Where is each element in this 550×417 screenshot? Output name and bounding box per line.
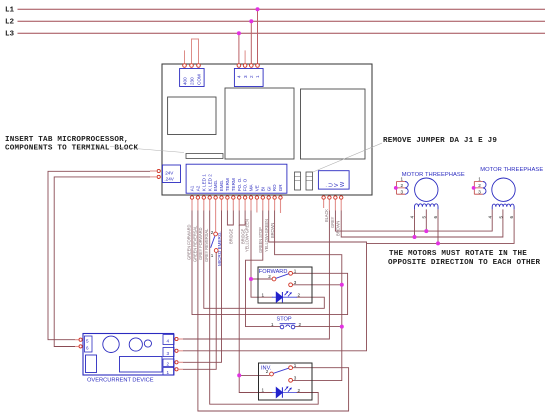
wire micro emerg to overcurrent 1 (183, 252, 216, 369)
stop contact a (280, 325, 284, 329)
junction FORWARD feed (249, 277, 253, 281)
terminal 230 (190, 64, 194, 68)
svg-text:1: 1 (271, 322, 274, 327)
oc bottom right rect (120, 357, 163, 373)
junction motor1 coil4 (413, 235, 417, 239)
svg-text:MOTOR THREEPHASE: MOTOR THREEPHASE (402, 172, 465, 178)
svg-text:COMPONENTS TO TERMINAL BLOCK: COMPONENTS TO TERMINAL BLOCK (5, 145, 138, 153)
forward switch contact 1 (289, 271, 293, 275)
svg-text:6: 6 (509, 216, 514, 219)
svg-text:STOP: STOP (277, 317, 292, 323)
svg-text:3: 3 (167, 351, 170, 356)
inv switch lever (273, 368, 288, 373)
UVW stubs (324, 200, 342, 211)
wire 24V to overcurrent 5 (48, 171, 150, 339)
jumper J9 (306, 172, 313, 190)
forward switch lever (276, 274, 289, 279)
wire terminal4 to L3 (238, 33, 240, 63)
wire MA feed to FORWARD contact 2 and led (251, 211, 273, 298)
svg-text:1: 1 (294, 363, 297, 368)
terminal -24V (157, 175, 160, 178)
wire FO.O bridge (239, 211, 245, 226)
svg-text:GREEN FORWARD: GREEN FORWARD (186, 225, 191, 260)
wire terminal2 to L2 (250, 21, 252, 63)
junction motor1 coil5 (424, 229, 428, 233)
junction stop2 (340, 325, 344, 329)
svg-text:1: 1 (262, 388, 265, 393)
svg-text:2: 2 (298, 388, 301, 393)
svg-text:A2: A2 (196, 185, 201, 191)
junction L1 (256, 7, 260, 11)
wire K LED 2 grey reversal to INV led (210, 211, 319, 405)
connector 400/230/COM box (180, 69, 205, 87)
micro emerg switch lever (211, 236, 215, 248)
terminal strip stubs (192, 200, 281, 232)
wire -24V to overcurrent 6 (54, 177, 150, 347)
svg-text:BLACK: BLACK (324, 209, 329, 222)
oc bottom left rect (86, 355, 97, 373)
wire L3 line (18, 32, 546, 34)
svg-text:2: 2 (268, 274, 271, 279)
oc terminal 5 (79, 338, 82, 341)
svg-text:YELLOW+GREEN: YELLOW+GREEN (264, 219, 269, 252)
board inner block right (301, 89, 366, 159)
jumper J1 (295, 172, 301, 190)
wire terminal1 to L1 (257, 9, 259, 63)
svg-text:24V: 24V (165, 170, 174, 175)
motor1 coils (414, 204, 438, 210)
svg-text:RO: RO (272, 184, 277, 191)
inv switch contact 3 (289, 378, 293, 382)
svg-text:TERM: TERM (225, 178, 230, 191)
wire V grey from UVW to motor coils (335, 209, 492, 231)
oc terminal 2 right (175, 361, 178, 364)
svg-text:MA: MA (249, 183, 254, 191)
oc right terminal box 2 (163, 359, 174, 367)
svg-text:OPPOSITE DIRECTION TO EACH OTH: OPPOSITE DIRECTION TO EACH OTHER (388, 259, 540, 267)
svg-text:YELLOW+GREEN: YELLOW+GREEN (245, 219, 250, 252)
svg-text:1: 1 (262, 292, 265, 297)
forward switch contact 2 (272, 277, 276, 281)
terminal 2 (250, 64, 254, 68)
svg-text:GI: GI (266, 186, 271, 191)
svg-text:2: 2 (249, 75, 254, 78)
svg-text:3: 3 (401, 189, 404, 194)
svg-text:2: 2 (299, 322, 302, 327)
motor2 connector (472, 177, 486, 195)
svg-text:3: 3 (243, 75, 248, 78)
svg-text:1: 1 (294, 268, 297, 273)
wire L1 line (18, 8, 546, 10)
svg-text:6: 6 (86, 346, 89, 351)
svg-text:6: 6 (433, 216, 438, 219)
UVW connector box (318, 171, 349, 189)
wire FORWARD contact2 branch (251, 278, 272, 280)
terminal strip labels (190, 174, 284, 192)
svg-text:GREY REVERSAL: GREY REVERSAL (204, 228, 209, 262)
terminal strip box (186, 164, 287, 193)
terminal 3 (243, 64, 247, 68)
oc terminal 1 right (175, 368, 178, 371)
svg-text:THE MOTORS MUST ROTATE IN THE: THE MOTORS MUST ROTATE IN THE (389, 250, 527, 258)
svg-text:BROWN: BROWN (336, 221, 341, 236)
terminal strip circles (190, 196, 282, 199)
svg-text:4: 4 (487, 216, 492, 219)
oc right terminal box 3 (163, 348, 174, 357)
stop bar (280, 324, 296, 327)
svg-text:2: 2 (298, 293, 301, 298)
svg-text:1: 1 (255, 75, 260, 78)
inv switch contact 2 (270, 372, 274, 376)
oc right terminal box 1 (163, 368, 174, 376)
svg-text:2: 2 (167, 361, 170, 366)
STOP pushbutton (271, 317, 302, 329)
wire A1 green forward to FORWARD contact 1 (192, 211, 348, 315)
terminal COM (197, 64, 201, 68)
wire RO to forward3 stop2 inv3 chain (275, 211, 342, 381)
svg-text:EMG.: EMG. (213, 180, 218, 192)
INV box (259, 363, 313, 400)
micro emerg switch terminal b (214, 249, 218, 253)
junction L3 (237, 31, 241, 35)
wire terminal3 stub (244, 50, 246, 63)
pointer line insert tab (110, 147, 184, 153)
inv led (262, 387, 301, 398)
UVW terminal circles (322, 196, 343, 199)
svg-text:GR: GR (278, 184, 283, 192)
svg-text:L2: L2 (5, 19, 15, 27)
terminal 1 (256, 64, 260, 68)
svg-text:TERM: TERM (231, 178, 236, 191)
svg-text:4: 4 (167, 338, 170, 343)
junction INV feed (237, 373, 241, 377)
svg-text:FO. O.: FO. O. (237, 178, 242, 192)
terminal 400 (183, 64, 187, 68)
board inner block left (168, 97, 216, 135)
oc left terminal box (85, 336, 93, 352)
svg-text:4: 4 (410, 216, 415, 219)
svg-text:2: 2 (266, 369, 269, 374)
wire motors phase3 run (367, 209, 515, 243)
board inner block center (225, 88, 294, 159)
svg-text:FORWARD: FORWARD (259, 269, 288, 275)
wire EMG2 to overcurrent 2 (183, 211, 222, 363)
svg-text:GREY FORWARD: GREY FORWARD (198, 227, 203, 260)
svg-text:FO. O: FO. O (243, 178, 248, 191)
wire FORWARD contact3 link (293, 284, 342, 286)
svg-text:L3: L3 (5, 31, 15, 39)
svg-text:BI: BI (260, 187, 265, 191)
svg-text:1: 1 (167, 370, 170, 375)
microprocessor board outline (162, 64, 372, 195)
connector 4321 box (234, 69, 263, 87)
motor2 circle (492, 178, 515, 201)
wire GI to motors phase and overcurrent 3 (183, 211, 367, 351)
terminal 24V (157, 169, 160, 172)
forward switch contact 3 (289, 283, 293, 287)
svg-text:VE: VE (255, 185, 260, 191)
svg-text:5: 5 (86, 339, 89, 344)
svg-text:A1: A1 (190, 185, 195, 191)
overcurrent device (83, 334, 174, 384)
svg-text:COM: COM (196, 74, 201, 85)
svg-text:K LED 2: K LED 2 (207, 174, 212, 192)
motor 1 (394, 172, 465, 219)
oc medium circle (129, 338, 142, 351)
svg-text:OVERCURRENT DEVICE: OVERCURRENT DEVICE (87, 377, 154, 383)
svg-text:230: 230 (189, 77, 194, 85)
svg-text:2: 2 (401, 183, 404, 188)
wire K LED 1 grey forward to FORWARD led (204, 211, 324, 309)
wire -24V stub (150, 176, 157, 178)
wire W brown from UVW to motor coils (341, 209, 503, 237)
wire L2 line (18, 20, 546, 22)
svg-text:3: 3 (294, 280, 297, 285)
svg-text:GREEN STOP: GREEN STOP (258, 227, 263, 253)
oc right stubs (75, 339, 183, 369)
board thin slot rectangle (186, 154, 223, 159)
oc terminal 4 right (175, 337, 178, 340)
svg-text:1: 1 (478, 177, 481, 182)
wire TERM bridge (227, 211, 233, 226)
oc terminal 3 right (175, 349, 178, 352)
FORWARD box (258, 267, 312, 303)
motor1 circle (415, 178, 438, 201)
wire 24V stub (150, 170, 157, 172)
wire 230-COM bridge (192, 39, 199, 64)
wire U black from UVW to overcurrent 4 (183, 211, 329, 340)
wire motor1 coil5 drop (425, 209, 427, 231)
junction motor1 coil6 (436, 241, 440, 245)
micro emerg switch terminal a (214, 232, 218, 236)
svg-text:4: 4 (237, 75, 242, 78)
svg-text:MOTOR THREEPHASE: MOTOR THREEPHASE (480, 167, 543, 173)
svg-text:K LED 1: K LED 1 (201, 174, 206, 192)
motor1 connector (394, 177, 408, 195)
svg-text:BROWN: BROWN (270, 223, 275, 238)
svg-text:BRIDGE: BRIDGE (229, 229, 234, 244)
oc right terminal box 4 (163, 335, 174, 345)
svg-text:5: 5 (498, 216, 503, 219)
inv switch contact 1 (289, 366, 293, 370)
stop contact b (291, 325, 295, 329)
svg-text:L1: L1 (5, 7, 15, 15)
svg-text:GREEN REVERSAL: GREEN REVERSAL (192, 225, 197, 262)
svg-text:MICRO EMERG.: MICRO EMERG. (217, 231, 222, 266)
svg-text:INSERT TAB MICROPROCESSOR,: INSERT TAB MICROPROCESSOR, (5, 136, 129, 144)
junction forward3 (340, 283, 344, 287)
wire A2 green reversal to INV contact 1 (198, 211, 349, 412)
wire motor1 coil6 drop (437, 209, 439, 243)
svg-text:3: 3 (294, 375, 297, 380)
terminal 4 (237, 64, 241, 68)
svg-text:5: 5 (421, 216, 426, 219)
svg-text:2: 2 (478, 183, 481, 188)
svg-text:EMG.: EMG. (219, 180, 224, 192)
wire INV contact2 branch (239, 374, 269, 376)
wire 400 stub (184, 50, 186, 63)
forward led (262, 291, 301, 302)
svg-text:1: 1 (401, 177, 404, 182)
svg-text:3: 3 (478, 189, 481, 194)
junction L2 (249, 19, 253, 23)
wire STOP contact2 link (295, 326, 342, 328)
oc big circle (103, 336, 119, 352)
motor2 coils (492, 204, 514, 209)
svg-text:1: 1 (211, 253, 214, 258)
oc terminal 6 (79, 345, 82, 348)
motor 2 (472, 167, 544, 219)
pointer line remove jumper (313, 143, 382, 172)
svg-text:400: 400 (182, 77, 187, 85)
oc small circle (144, 340, 151, 347)
svg-text:.24V: .24V (164, 176, 174, 181)
svg-text:GREY: GREY (330, 216, 335, 228)
wire FO.O1 feed to INV contact 2 and led (239, 225, 272, 393)
svg-text:2: 2 (211, 230, 214, 235)
wire BI green stop to STOP contact 1 (246, 211, 281, 327)
wire motor1 coil4 drop (414, 209, 416, 237)
svg-text:REMOVE JUMPER DA J1 E J9: REMOVE JUMPER DA J1 E J9 (383, 137, 497, 145)
24V supply box (162, 165, 180, 183)
